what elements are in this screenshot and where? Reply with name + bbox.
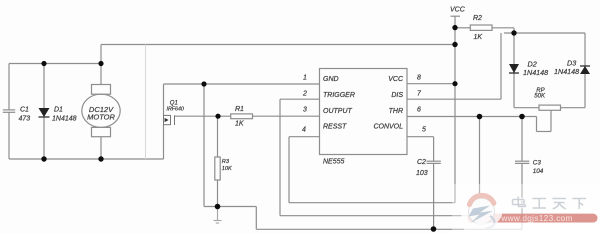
svg-text:DIS: DIS [391, 92, 403, 99]
svg-text:8: 8 [417, 75, 421, 82]
svg-text:4: 4 [302, 126, 306, 133]
svg-text:CONVOL: CONVOL [373, 124, 403, 131]
svg-text:C1: C1 [20, 107, 29, 114]
svg-text:VCC: VCC [450, 7, 466, 14]
svg-text:1K: 1K [235, 121, 244, 128]
svg-text:473: 473 [19, 116, 31, 123]
svg-text:50K: 50K [534, 94, 546, 100]
svg-text:IRF640: IRF640 [167, 106, 184, 112]
svg-text:104: 104 [533, 168, 544, 175]
svg-text:C2: C2 [417, 159, 426, 166]
svg-text:GND: GND [323, 76, 339, 83]
svg-text:R1: R1 [235, 106, 244, 113]
svg-text:1: 1 [303, 75, 307, 82]
svg-text:1N4148: 1N4148 [523, 68, 548, 77]
svg-text:www.dgjs123.com: www.dgjs123.com [500, 213, 572, 223]
svg-text:6: 6 [417, 107, 421, 114]
svg-text:NE555: NE555 [323, 159, 345, 166]
svg-text:VCC: VCC [388, 76, 404, 83]
svg-text:TRIGGER: TRIGGER [323, 92, 355, 99]
svg-text:RESST: RESST [323, 124, 347, 131]
svg-text:1N4148: 1N4148 [554, 67, 579, 76]
svg-text:5: 5 [422, 126, 426, 133]
svg-text:D1: D1 [54, 107, 63, 114]
svg-text:103: 103 [416, 170, 428, 177]
svg-text:7: 7 [417, 91, 422, 98]
svg-text:3: 3 [303, 107, 307, 114]
svg-text:R3: R3 [222, 159, 230, 165]
svg-text:1K: 1K [474, 34, 483, 41]
svg-text:THR: THR [389, 108, 403, 115]
svg-text:C3: C3 [533, 159, 542, 166]
svg-text:R2: R2 [473, 15, 482, 22]
svg-text:2: 2 [302, 91, 307, 98]
svg-text:OUTPUT: OUTPUT [323, 108, 353, 115]
svg-text:MOTOR: MOTOR [87, 113, 115, 122]
svg-text:10K: 10K [222, 166, 232, 172]
svg-text:1N4148: 1N4148 [52, 116, 77, 123]
